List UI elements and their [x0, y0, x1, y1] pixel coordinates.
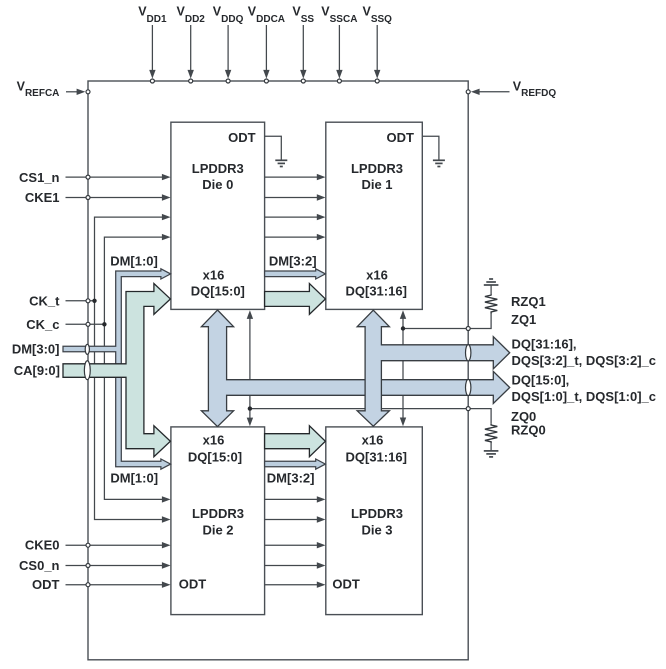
node VDD2 — [189, 79, 193, 83]
bus DQ[15:0] die0 to die1 — [265, 284, 326, 315]
svg-text:DQ[15:0]: DQ[15:0] — [188, 449, 242, 464]
package outline — [88, 81, 468, 660]
label ZQ1 — [511, 312, 536, 327]
wire CS1_n die0 to die1 — [265, 174, 326, 180]
svg-text:ODT: ODT — [332, 577, 360, 592]
bus DQ[31:16] die1-die3 with output band — [357, 310, 510, 426]
svg-text:CA[9:0]: CA[9:0] — [14, 363, 60, 378]
bus DM[3:2] die0 to die1 — [265, 269, 326, 279]
resistor RZQ0 — [485, 423, 497, 450]
crossing oval DM[3:0] at border — [85, 344, 89, 354]
wire ZQ0 vertical die0 to die2 — [247, 310, 253, 426]
node CK_c — [86, 322, 90, 326]
crossing oval DQ[15:0] at border — [466, 379, 471, 395]
pin VSS — [292, 5, 314, 79]
svg-text:CS1_n: CS1_n — [19, 170, 60, 185]
svg-text:CKE1: CKE1 — [25, 190, 60, 205]
junction ZQ1 — [401, 326, 405, 330]
svg-text:DM[3:2]: DM[3:2] — [267, 470, 315, 485]
die U3 LPDDR3 Die 3 — [326, 427, 423, 615]
svg-text:VDD1: VDD1 — [138, 5, 167, 26]
crossing oval CA[9:0] at border — [84, 361, 90, 380]
svg-text:DQ[31:16]: DQ[31:16] — [345, 283, 406, 298]
svg-text:LPDDR3: LPDDR3 — [192, 161, 244, 176]
label CA[9:0] — [14, 363, 60, 378]
wire CK_t riser — [95, 214, 171, 523]
svg-text:Die 3: Die 3 — [361, 522, 392, 537]
junction ZQ0 — [248, 406, 252, 410]
crossing oval DQ[31:16] at border — [466, 345, 471, 361]
ground at die1 ODT — [433, 160, 445, 166]
wire die1 ODT to ground — [422, 136, 439, 159]
svg-text:CKE0: CKE0 — [25, 537, 60, 552]
svg-text:ODT: ODT — [387, 130, 415, 145]
svg-text:DM[1:0]: DM[1:0] — [110, 254, 158, 269]
node VSSCA — [337, 79, 341, 83]
svg-text:LPDDR3: LPDDR3 — [351, 161, 403, 176]
ground at RZQ1 (inverted) — [484, 279, 499, 285]
label DM[3:0] — [12, 342, 60, 357]
svg-text:x16: x16 — [366, 268, 388, 283]
node ZQ0 — [466, 407, 470, 411]
wire CK_t die0 to die1 — [265, 214, 326, 220]
wire CK_c — [26, 317, 104, 332]
wire CKE0 die2 to die3 — [265, 542, 326, 548]
wire CK_t — [29, 294, 94, 309]
pin VSSQ — [363, 5, 393, 79]
svg-text:ODT: ODT — [179, 577, 207, 592]
node ODT — [86, 583, 90, 587]
pin VDD2 — [177, 5, 206, 79]
svg-text:VSSQ: VSSQ — [363, 5, 393, 26]
bus DQ[15:0] die0-die2 with output band — [201, 310, 509, 427]
resistor RZQ1 — [485, 286, 497, 314]
bus DM[3:0] tree — [63, 269, 171, 469]
pin VDDQ — [213, 5, 244, 79]
node ZQ1 — [466, 327, 470, 331]
svg-text:DM[3:0]: DM[3:0] — [12, 342, 60, 357]
label DQ[31:16] DQS[3:2] out — [512, 336, 656, 367]
svg-text:CK_c: CK_c — [26, 317, 59, 332]
svg-text:LPDDR3: LPDDR3 — [351, 506, 403, 521]
node CKE0 — [86, 543, 90, 547]
svg-text:x16: x16 — [203, 433, 225, 448]
svg-text:CS0_n: CS0_n — [19, 558, 60, 573]
svg-text:Die 1: Die 1 — [361, 177, 392, 192]
svg-text:RZQ1: RZQ1 — [511, 294, 546, 309]
node VDDCA — [264, 79, 268, 83]
label DM[3:2] top — [269, 254, 317, 269]
wire CS1_n — [19, 170, 171, 185]
wire ZQ1 to RZQ1 — [403, 313, 491, 329]
svg-text:VSSCA: VSSCA — [321, 5, 357, 26]
node VREFDQ — [466, 90, 470, 94]
ground at RZQ0 — [484, 451, 499, 457]
wire CK_t die2 to die3 — [265, 516, 326, 522]
node VDD1 — [150, 79, 154, 83]
svg-text:DM[3:2]: DM[3:2] — [269, 254, 317, 269]
wire die0 ODT to ground — [265, 136, 282, 159]
node CS1_n — [86, 175, 90, 179]
svg-text:RZQ0: RZQ0 — [511, 422, 546, 437]
wire ODT — [32, 577, 171, 592]
wire CK_c die2 to die3 — [265, 496, 326, 502]
wire ZQ1 vertical die1 to die3 — [400, 310, 406, 426]
label ZQ0 — [511, 409, 536, 424]
svg-text:x16: x16 — [362, 433, 384, 448]
wire CKE0 — [25, 537, 171, 552]
pin VDDCA — [248, 5, 285, 79]
label DM[1:0] die0 — [110, 254, 158, 269]
junction CK_t — [92, 299, 96, 303]
pin VDD1 — [138, 5, 167, 79]
wire CKE1 die0 to die1 — [265, 194, 326, 200]
pin VREFCA — [17, 80, 86, 100]
svg-text:VDDQ: VDDQ — [213, 5, 244, 26]
die U0 LPDDR3 Die 0 — [171, 122, 265, 309]
svg-text:Die 2: Die 2 — [202, 522, 233, 537]
bus DQ[15:0] die2 to die3 — [265, 426, 326, 457]
wire ODT die2 to die3 — [265, 582, 326, 588]
svg-text:VSS: VSS — [292, 5, 314, 26]
wire ZQ0 to RZQ0 — [250, 409, 491, 423]
label RZQ0 — [511, 422, 546, 437]
svg-text:ODT: ODT — [32, 577, 60, 592]
pin VSSCA — [321, 5, 357, 79]
label DM[3:2] bottom — [267, 470, 315, 485]
svg-text:Die 0: Die 0 — [202, 177, 233, 192]
pin VREFDQ — [471, 80, 556, 100]
svg-text:DQ[15:0],: DQ[15:0], — [512, 372, 570, 387]
label RZQ1 — [511, 294, 546, 309]
label DM[1:0] die2 — [110, 470, 158, 485]
svg-text:DM[1:0]: DM[1:0] — [110, 470, 158, 485]
svg-text:DQ[15:0]: DQ[15:0] — [191, 283, 245, 298]
svg-text:DQ[31:16]: DQ[31:16] — [345, 449, 406, 464]
svg-text:DQ[31:16],: DQ[31:16], — [512, 336, 577, 351]
svg-text:VREFCA: VREFCA — [17, 80, 60, 100]
bus DM[3:2] die2 to die3 — [265, 459, 326, 469]
svg-text:CK_t: CK_t — [29, 294, 60, 309]
svg-text:VREFDQ: VREFDQ — [513, 80, 557, 100]
node VREFCA — [86, 90, 90, 94]
wire CK_c riser — [104, 234, 170, 503]
svg-text:ODT: ODT — [228, 130, 256, 145]
svg-text:x16: x16 — [203, 268, 225, 283]
junction CK_c — [102, 322, 106, 326]
ground at die0 ODT — [275, 160, 287, 166]
svg-text:VDDCA: VDDCA — [248, 5, 285, 26]
node VSSQ — [375, 79, 379, 83]
svg-text:DQS[1:0]_t, DQS[1:0]_c: DQS[1:0]_t, DQS[1:0]_c — [512, 389, 656, 404]
bus CA[9:0] tree — [63, 284, 170, 457]
svg-text:ZQ1: ZQ1 — [511, 312, 536, 327]
wire CKE1 — [25, 190, 171, 205]
svg-text:LPDDR3: LPDDR3 — [192, 506, 244, 521]
wire CS0_n die2 to die3 — [265, 562, 326, 568]
svg-text:VDD2: VDD2 — [177, 5, 206, 26]
label DQ[15:0] DQS[1:0] out — [512, 372, 656, 404]
svg-text:DQS[3:2]_t, DQS[3:2]_c: DQS[3:2]_t, DQS[3:2]_c — [512, 353, 656, 368]
die U1 LPDDR3 Die 1 — [326, 122, 423, 309]
die U2 LPDDR3 Die 2 — [171, 427, 265, 615]
node VDDQ — [226, 79, 230, 83]
node CS0_n — [86, 564, 90, 568]
node VSS — [301, 79, 305, 83]
node CK_t — [86, 299, 90, 303]
wire CK_c die0 to die1 — [265, 234, 326, 240]
node CKE1 — [86, 196, 90, 200]
wire CS0_n — [19, 558, 171, 573]
